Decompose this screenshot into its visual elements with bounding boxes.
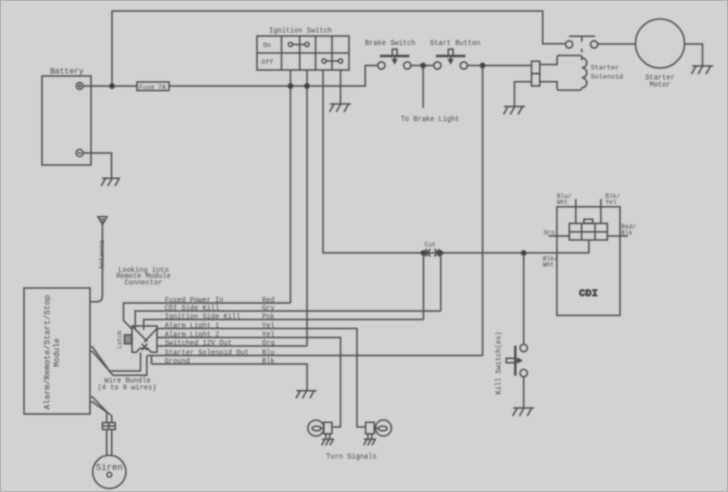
svg-text:Module: Module (53, 338, 62, 367)
wire: Ground line (152, 356, 308, 391)
wire: motor to ground (685, 44, 703, 66)
remote module connector J1 (132, 326, 157, 352)
fuse F1 7A (137, 82, 169, 91)
wire: Grn stub (549, 235, 570, 237)
brake switch SW2 (378, 49, 411, 69)
wire: Blk/Yel stub (600, 199, 602, 223)
wire: fuse to brake switch riser (169, 66, 378, 87)
wire: ignition col2 down to Switched 12V Out (306, 70, 308, 346)
svg-text:Antenna: Antenna (99, 240, 107, 269)
svg-text:To Brake Light: To Brake Light (401, 116, 460, 124)
wire: ignition col1 down to Fused Power In (290, 70, 292, 303)
siren LS1 (93, 455, 126, 488)
junction dot col1 on rail (288, 84, 292, 88)
svg-text:Alarm Light 1: Alarm Light 1 (165, 322, 220, 330)
junction dot at battery + rail (110, 84, 114, 88)
starter motor M1 (636, 19, 685, 68)
svg-text:CDI Side Kill: CDI Side Kill (165, 305, 220, 313)
svg-text:Motor: Motor (650, 82, 671, 90)
svg-text:Org: Org (262, 340, 275, 348)
svg-text:Grn: Grn (544, 229, 555, 236)
svg-text:Gry: Gry (262, 305, 275, 313)
wire: brake switch to start button (411, 65, 434, 67)
svg-text:Alarm/Remote/Start/Stop: Alarm/Remote/Start/Stop (43, 295, 53, 410)
start button SW3 (434, 49, 468, 69)
svg-text:Blu: Blu (262, 349, 275, 357)
svg-text:Solenoid: Solenoid (591, 74, 624, 82)
wire bundle (90, 347, 147, 375)
wire: ignition col4 to ground (340, 70, 342, 104)
svg-text:Starter Solenoid Out: Starter Solenoid Out (165, 349, 249, 357)
cut marks on kill wire (421, 249, 442, 257)
ground solenoid (504, 107, 526, 115)
turn signal lamp left (308, 420, 334, 445)
svg-text:Kill Switch(es): Kill Switch(es) (496, 331, 504, 394)
svg-text:(4 to 8 wires): (4 to 8 wires) (98, 384, 157, 392)
svg-text:Wht: Wht (543, 262, 554, 269)
ground motor (692, 66, 714, 74)
wire: Alarm Light 2 line (157, 338, 341, 428)
svg-text:On: On (263, 42, 271, 49)
svg-text:Cut: Cut (425, 242, 437, 249)
wire: Ignition Side Kill line (144, 320, 424, 331)
wire: module to siren double line (90, 397, 112, 423)
wire: cut left dot down to Ignition Side Kill (423, 253, 425, 320)
junction dot kill switch tap (522, 251, 526, 255)
svg-text:Blk: Blk (262, 358, 275, 366)
junction dot col2 on rail (305, 84, 309, 88)
wire: Alarm Light 1 line (157, 329, 366, 428)
wire: relay contact to starter motor (598, 43, 636, 45)
ignition switch SW1 (257, 36, 349, 70)
wire: battery + to fuse (83, 85, 137, 87)
svg-text:Ignition Side Kill: Ignition Side Kill (165, 313, 241, 321)
wire: cut right dot down to CDI Side Kill (440, 253, 442, 311)
junction dot starter solenoid out (480, 63, 484, 67)
junction dot to brake light (421, 63, 425, 67)
ground battery (101, 178, 120, 186)
svg-text:Blk: Blk (621, 230, 632, 237)
wire: kill switch drop (523, 253, 525, 344)
kill switch SW4 (506, 344, 527, 377)
wire: Starter Solenoid Out line (147, 355, 483, 357)
svg-text:Starter: Starter (591, 65, 620, 73)
wire: top power rail from battery junction to starter relay (112, 11, 566, 86)
svg-text:CDI: CDI (579, 288, 598, 300)
svg-text:Ignition Switch: Ignition Switch (269, 28, 332, 36)
svg-text:Latch: Latch (116, 330, 123, 348)
svg-text:Fuse 7A: Fuse 7A (139, 84, 166, 91)
wire: Fused Power In line (124, 303, 291, 329)
CDI connector (569, 219, 607, 240)
svg-text:Connector: Connector (125, 280, 163, 288)
wire: battery - to ground (83, 153, 111, 178)
starter solenoid coil K1 (532, 56, 587, 91)
battery B1 (42, 76, 91, 165)
wire: to brake light drop (422, 66, 424, 109)
wire: CDI Side Kill line (135, 311, 441, 330)
antenna A1 (90, 217, 107, 302)
siren connector (102, 423, 115, 430)
wire: start button to solenoid block (467, 65, 531, 67)
svg-text:Battery: Battery (50, 68, 84, 77)
turn signal lamp right (364, 420, 392, 445)
svg-text:Turn Signals: Turn Signals (326, 453, 376, 461)
wire: ignition col3 kill wire down and right to CDI (323, 70, 589, 253)
svg-text:Off: Off (262, 59, 274, 66)
ground kill switch (513, 408, 535, 416)
svg-text:Ground: Ground (165, 358, 190, 366)
wire: Red/Blk stub (607, 235, 628, 237)
latch (125, 335, 132, 344)
starter relay contact (566, 36, 598, 60)
wire: Switched 12V Out line (157, 345, 307, 347)
wire: solenoid block to ground (515, 82, 532, 107)
svg-text:Yel: Yel (262, 331, 275, 339)
svg-text:Pnk: Pnk (262, 313, 275, 321)
svg-text:Yel: Yel (262, 322, 275, 330)
ground ignition (330, 104, 352, 112)
ground blk wire (296, 391, 317, 399)
wire: Blu/Wht stub (575, 199, 577, 223)
alarm module box U1 (24, 288, 90, 414)
wire: connector to siren (107, 430, 112, 456)
svg-text:Brake Switch: Brake Switch (365, 40, 415, 48)
svg-text:Wht: Wht (557, 199, 568, 206)
CDI box U2 (557, 207, 620, 316)
wire: start junction down to Starter Solenoid Out line (482, 66, 484, 356)
svg-text:Yel: Yel (605, 199, 616, 206)
svg-text:Alarm Light 2: Alarm Light 2 (165, 331, 220, 339)
svg-text:Red: Red (262, 297, 275, 305)
svg-text:Start Button: Start Button (430, 40, 480, 48)
svg-text:Switched 12V Out: Switched 12V Out (165, 340, 232, 348)
svg-text:Siren: Siren (96, 463, 123, 473)
svg-text:Fused Power In: Fused Power In (165, 297, 224, 305)
wire: kill switch to ground (523, 377, 525, 408)
